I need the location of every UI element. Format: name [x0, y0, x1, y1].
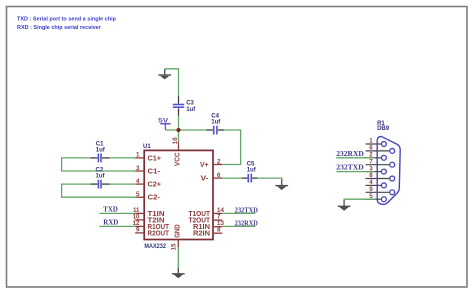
wire ground to C3 top — [165, 69, 179, 97]
wire C1 to pin 1 — [110, 157, 136, 159]
svg-text:1uf: 1uf — [186, 107, 196, 113]
svg-text:R2IN: R2IN — [193, 230, 210, 237]
DB9 pin numbers — [369, 138, 373, 200]
svg-text:232RXD: 232RXD — [336, 150, 364, 158]
capacitor C4 — [207, 113, 225, 134]
wire C1 loop to pin 3 — [62, 158, 136, 171]
svg-text:1uf: 1uf — [211, 119, 221, 125]
svg-text:C1+: C1+ — [148, 155, 162, 162]
svg-text:2: 2 — [217, 158, 221, 165]
wire pin6 (V-) to C5 — [222, 177, 242, 179]
wire C2 loop to pin 5 — [62, 184, 136, 197]
svg-text:V-: V- — [201, 176, 210, 183]
svg-text:5: 5 — [136, 191, 140, 198]
svg-text:RXD : Single chip serial recei: RXD : Single chip serial receiver — [17, 25, 102, 31]
ground (top, near C3) — [158, 69, 171, 80]
wire 232TXD — [222, 212, 255, 214]
wire C5 to ground — [258, 178, 282, 179]
svg-text:DB9: DB9 — [377, 126, 390, 132]
svg-text:C2-: C2- — [148, 195, 161, 202]
wire DB9 pin5 to ground — [344, 199, 375, 201]
left pin names — [148, 155, 170, 237]
ground (bottom, chip GND) — [172, 268, 185, 279]
wire C4 to pin2 (V+) — [222, 130, 240, 165]
svg-text:TXD: TXD — [103, 206, 118, 214]
svg-text:C3: C3 — [186, 101, 194, 107]
wire RXD — [99, 225, 135, 227]
svg-text:3: 3 — [136, 165, 140, 172]
svg-text:8: 8 — [217, 227, 221, 234]
junction 5V/VCC node — [176, 128, 180, 132]
svg-text:V+: V+ — [200, 162, 209, 169]
right pin stubs — [213, 165, 222, 234]
DB9 left pin circles — [381, 142, 394, 202]
wire 5V row to C4 — [165, 129, 206, 131]
wire DB9 pin2 — [336, 157, 374, 159]
wire 232RXD — [222, 225, 255, 227]
svg-text:6: 6 — [217, 172, 221, 179]
svg-text:TXD : Serial port to send a si: TXD : Serial port to send a single chip — [17, 17, 116, 23]
pin 16 VCC — [178, 142, 180, 150]
svg-text:VCC: VCC — [174, 153, 181, 167]
wire DB9 pin3 — [336, 171, 374, 173]
svg-text:RXD: RXD — [103, 219, 118, 227]
ground (DB9 pin5) — [338, 200, 351, 211]
DB9 pin stubs — [366, 144, 390, 199]
svg-text:1: 1 — [136, 152, 140, 159]
right pin names — [189, 162, 211, 238]
capacitor C5 — [242, 162, 258, 183]
capacitor C3 — [173, 96, 196, 115]
pin 15 GND — [177, 240, 179, 248]
wire C2 to pin 4 — [110, 183, 136, 185]
svg-text:232TXD: 232TXD — [336, 164, 364, 172]
svg-text:MAX232: MAX232 — [144, 244, 166, 250]
svg-text:C2+: C2+ — [148, 182, 162, 189]
DB9 connector outline — [377, 136, 400, 204]
svg-text:GND: GND — [174, 224, 181, 238]
IC U1 MAX232 body — [144, 150, 213, 239]
5V supply — [158, 117, 170, 130]
capacitor C1 — [91, 142, 110, 163]
left pin stubs — [135, 158, 144, 233]
right pin numbers — [217, 158, 224, 233]
svg-text:15: 15 — [170, 243, 177, 250]
svg-text:R2OUT: R2OUT — [148, 230, 170, 237]
svg-text:9: 9 — [136, 227, 140, 234]
svg-text:16: 16 — [172, 137, 179, 144]
svg-text:C1-: C1- — [148, 169, 161, 176]
svg-text:1uf: 1uf — [96, 173, 106, 179]
wire C3 to junction to pin16 — [178, 116, 180, 143]
wire TXD — [99, 212, 135, 214]
capacitor C2 — [91, 168, 110, 189]
svg-text:4: 4 — [136, 178, 140, 185]
left pin numbers — [133, 152, 140, 234]
ground (right of C5) — [275, 179, 288, 190]
wire pin15 to ground — [177, 247, 179, 267]
svg-text:1uf: 1uf — [247, 167, 257, 173]
svg-text:U1: U1 — [143, 144, 151, 150]
svg-text:1uf: 1uf — [96, 147, 106, 153]
